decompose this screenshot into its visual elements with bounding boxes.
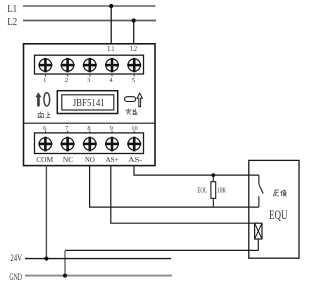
svg-text:JBF5141: JBF5141	[73, 97, 105, 109]
svg-text:COM: COM	[36, 155, 53, 164]
pin tick 7	[67, 131, 69, 133]
terminal 4	[105, 58, 119, 72]
wire GND rail	[25, 275, 172, 277]
wire L1 rail	[23, 5, 156, 7]
pin tick 2	[67, 74, 69, 76]
svg-text:3: 3	[87, 77, 90, 84]
terminal 10	[127, 137, 141, 152]
icon install slot	[125, 97, 136, 102]
pin tick 3	[89, 74, 91, 76]
terminal strip lower	[35, 133, 144, 154]
svg-text:EQU: EQU	[269, 208, 288, 222]
relay box EQU outline	[249, 160, 299, 258]
svg-text:L1: L1	[108, 44, 115, 53]
terminal 7	[61, 137, 75, 152]
wire coil bottom lead	[257, 239, 259, 250]
terminal 3	[83, 58, 97, 72]
pin tick 8	[89, 131, 91, 133]
pin tick 10	[133, 131, 135, 133]
pin tick 9	[111, 131, 113, 133]
terminal 1	[38, 58, 52, 72]
module internal separator line	[24, 122, 156, 124]
wire L2 rail	[23, 20, 156, 22]
wire AS+ to coil	[111, 166, 258, 224]
display window outer	[57, 91, 117, 114]
terminal 9	[105, 137, 119, 152]
icon install arrow	[137, 93, 142, 107]
junction dot return-GND	[63, 274, 67, 278]
svg-text:L1: L1	[7, 4, 17, 15]
wire L1 to terminal 4	[110, 6, 112, 46]
relay coil	[255, 223, 262, 239]
wire return drop to GND	[64, 250, 66, 275]
wire AS- to feedback contact	[134, 166, 259, 176]
terminal 6	[38, 137, 52, 152]
svg-text:NC: NC	[63, 155, 73, 164]
svg-text:AS-: AS-	[128, 155, 143, 164]
svg-text:1: 1	[43, 77, 46, 84]
pin tick 5	[133, 74, 135, 76]
pin tick 6	[45, 131, 47, 133]
label xiangshang (up)	[38, 112, 51, 118]
wire NO to feedback contact	[90, 166, 259, 208]
svg-text:10K: 10K	[217, 187, 226, 195]
feedback switch contact	[259, 175, 263, 207]
junction dot COM-24V	[44, 257, 48, 261]
svg-text:GND: GND	[9, 272, 22, 282]
svg-text:L2: L2	[7, 17, 17, 28]
terminal 2	[61, 58, 75, 72]
junction dot EOL top	[211, 173, 215, 177]
svg-text:24V: 24V	[10, 253, 22, 263]
wire L2 to terminal 5	[133, 21, 135, 46]
icon up-arrow with 0	[35, 92, 41, 106]
wire coil return	[65, 249, 258, 251]
svg-text:EOL: EOL	[197, 187, 207, 195]
svg-text:NO: NO	[85, 155, 95, 164]
svg-text:5: 5	[132, 77, 135, 84]
resistor EOL 10K	[212, 175, 214, 182]
svg-text:2: 2	[65, 77, 68, 84]
svg-text:L2: L2	[130, 44, 137, 53]
pin tick 1	[45, 74, 47, 76]
terminal strip upper	[35, 55, 144, 74]
wire COM to 24V	[45, 166, 47, 259]
terminal 5	[127, 58, 141, 72]
pin tick 4	[111, 74, 113, 76]
terminal 8	[83, 137, 97, 152]
svg-text:AS+: AS+	[105, 155, 119, 164]
module U1 JBF5141 outline	[24, 44, 156, 166]
junction dot on L2 rail	[132, 18, 136, 22]
display window inner	[62, 95, 114, 110]
icon 0 oval	[44, 93, 50, 106]
label fankui (feedback)	[273, 190, 287, 197]
label anzhuang (install)	[126, 109, 138, 115]
wire 24V rail	[25, 258, 171, 260]
junction dot on L1 rail	[109, 4, 113, 8]
